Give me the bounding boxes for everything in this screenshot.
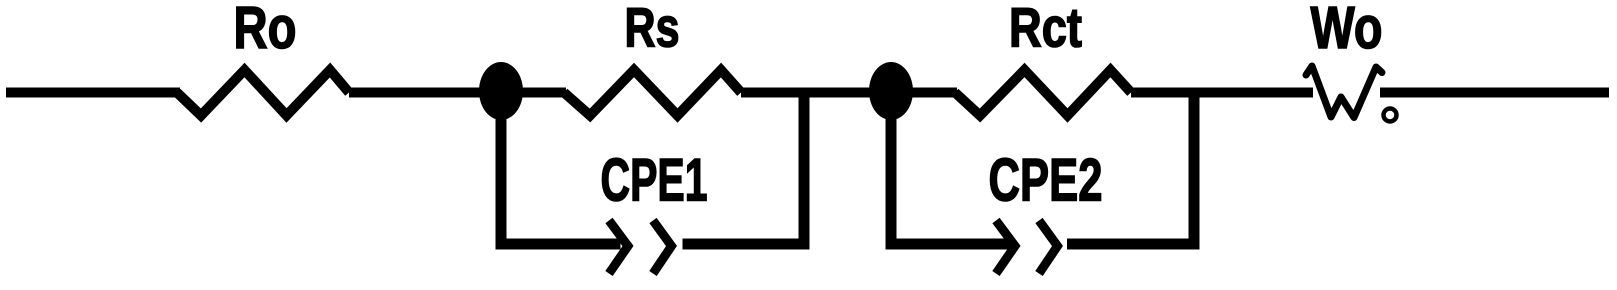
resistor R2 (Rs) <box>564 70 741 116</box>
Warburg element W1 (Wo) symbol <box>1306 66 1382 118</box>
wire: CPE1 bottom rail right <box>683 239 810 250</box>
wire: Rs to node B <box>741 88 957 98</box>
node A junction dot <box>479 62 523 120</box>
wire: CPE1 bottom rail left <box>496 239 621 250</box>
wire: right vertical of CPE2 loop <box>1189 93 1200 245</box>
svg-text:Wo: Wo <box>1311 0 1383 61</box>
svg-text:CPE2: CPE2 <box>989 147 1103 214</box>
svg-text:Rct: Rct <box>1009 0 1082 59</box>
capacitor CPE1 chevron 2 <box>653 221 672 274</box>
svg-text:Rs: Rs <box>625 0 680 59</box>
capacitor CPE2 chevron 2 <box>1039 221 1058 274</box>
wire: CPE2 bottom rail left <box>886 239 1011 250</box>
capacitor CPE2 chevron 1 <box>996 221 1015 274</box>
wire: node A vertical down <box>496 91 507 244</box>
resistor R3 (Rct) <box>955 70 1131 116</box>
resistor R1 (Ro) <box>177 70 349 116</box>
wire: CPE2 bottom rail right <box>1067 239 1200 250</box>
wire: right vertical of CPE1 loop <box>799 93 810 245</box>
wire: node B vertical down <box>886 91 897 244</box>
Warburg element W1 subscript o <box>1384 109 1397 122</box>
wire: Rct to Wo <box>1131 88 1313 98</box>
svg-text:Ro: Ro <box>234 0 297 61</box>
wire: Ro to node A <box>349 88 566 98</box>
capacitor CPE1 chevron 1 <box>609 221 628 274</box>
wire: right lead <box>1380 88 1609 98</box>
node B junction dot <box>869 62 913 120</box>
svg-text:CPE1: CPE1 <box>601 147 708 214</box>
wire: left lead <box>6 88 180 98</box>
